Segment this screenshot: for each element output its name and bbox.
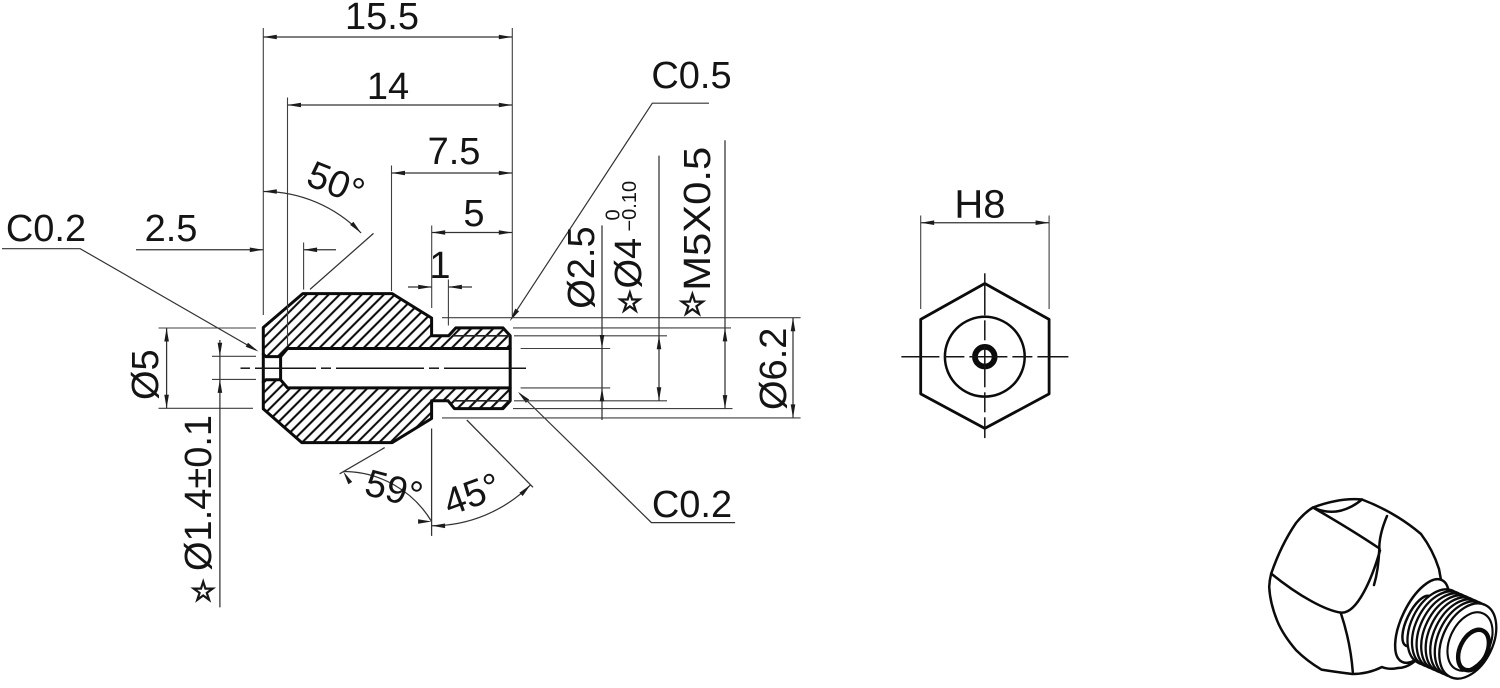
- isometric 3D view: [1269, 499, 1500, 688]
- svg-text:Ø5: Ø5: [125, 349, 167, 400]
- thread circle: [945, 317, 1025, 397]
- ext lines right: [442, 317, 801, 319]
- star M5: [682, 294, 703, 314]
- facet edge upper: [1313, 508, 1380, 549]
- shoulder flange outer: [1384, 571, 1460, 670]
- centerline vertical: [984, 273, 986, 315]
- dim 7.5: [391, 166, 393, 292]
- hex body silhouette: [1269, 499, 1441, 674]
- bore outline tip: [263, 354, 280, 382]
- dim 5: [431, 226, 433, 309]
- end hole ring: [1452, 625, 1495, 675]
- dim dia4 0/-0.10: [658, 156, 660, 401]
- end face chamfer: [1438, 605, 1500, 678]
- part outer profile: [263, 294, 510, 443]
- svg-text:5: 5: [463, 193, 484, 235]
- dim dia1.4: [212, 355, 256, 357]
- svg-text:C0.5: C0.5: [651, 55, 731, 97]
- dim 1: [447, 280, 449, 326]
- dim 2.5: [303, 243, 305, 290]
- svg-text:7.5: 7.5: [428, 131, 481, 173]
- facet edge bottom-front: [1341, 613, 1353, 672]
- svg-text:15.5: 15.5: [345, 0, 419, 38]
- svg-text:Ø1.4±0.1: Ø1.4±0.1: [178, 415, 220, 571]
- dim H8: [920, 216, 922, 310]
- svg-text:H8: H8: [954, 183, 1005, 227]
- bore ring: [975, 347, 995, 367]
- centerline: [241, 367, 251, 369]
- dim dia6.2: [792, 318, 794, 418]
- dim dia2.5: [601, 225, 603, 420]
- centerline horizontal: [901, 356, 939, 358]
- dim 15.5: [262, 28, 264, 315]
- svg-text:Ø2.5: Ø2.5: [561, 226, 603, 308]
- star dia4: [620, 293, 639, 311]
- thread root line bottom: [453, 400, 510, 402]
- bore outline bottom: [281, 380, 511, 388]
- hex end view outline: [921, 284, 1049, 429]
- facet edge right: [1374, 516, 1387, 585]
- bore outline top: [281, 349, 511, 357]
- svg-text:1: 1: [429, 245, 450, 287]
- svg-text:−0.10: −0.10: [619, 181, 641, 232]
- star dia1.4: [194, 582, 213, 600]
- dim 59 deg: [340, 448, 385, 474]
- svg-text:Ø4: Ø4: [608, 238, 650, 289]
- facet edge lower (J curve): [1271, 551, 1380, 613]
- dim 50 deg: [310, 233, 374, 289]
- hatched section body (nozzle cross-section): [263, 294, 510, 443]
- dim 14: [287, 98, 289, 347]
- thread root line top: [453, 335, 510, 337]
- svg-text:14: 14: [367, 66, 409, 108]
- dim M5X0.5: [724, 140, 726, 408]
- svg-text:C0.2: C0.2: [6, 208, 86, 250]
- top chamfer lens: [1313, 500, 1362, 512]
- thread ridges: [1396, 580, 1476, 674]
- svg-text:C0.2: C0.2: [652, 484, 732, 526]
- dim 45 deg: [431, 429, 433, 536]
- svg-text:M5X0.5: M5X0.5: [677, 147, 719, 291]
- shoulder flange inner: [1396, 591, 1440, 650]
- dim dia5: [159, 327, 257, 329]
- svg-text:Ø6.2: Ø6.2: [753, 328, 795, 410]
- svg-text:2.5: 2.5: [145, 208, 198, 250]
